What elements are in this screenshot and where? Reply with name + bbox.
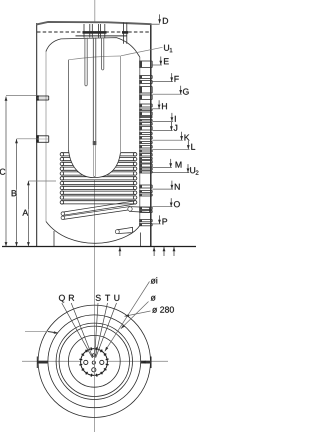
nozzle label I xyxy=(152,120,173,122)
nozzle label K xyxy=(152,139,183,141)
inner vessel left wall xyxy=(68,60,70,150)
flange bolt hole right xyxy=(100,360,104,364)
nozzle label U2 xyxy=(152,172,189,174)
dimension line A xyxy=(27,181,29,246)
plan concentric tank circles xyxy=(38,305,150,417)
sensor well pipe 2 long xyxy=(92,38,94,145)
label B xyxy=(11,189,17,197)
inner tank dished bottom xyxy=(46,222,140,244)
flange top hole xyxy=(93,354,96,357)
label A xyxy=(23,209,29,216)
sensor well pipe 1 xyxy=(84,38,86,86)
nozzle label O xyxy=(152,206,172,208)
left wall nozzle stub lower (B level) xyxy=(37,135,49,137)
nozzle label H xyxy=(152,108,160,110)
center flange xyxy=(81,349,108,376)
outer tank right wall xyxy=(150,24,152,246)
top nozzle neck 3 xyxy=(100,24,102,38)
callout ø 280 xyxy=(124,311,150,316)
inner vessel dished bottom xyxy=(69,150,121,178)
inner vessel right wall xyxy=(119,56,121,153)
nozzle label N xyxy=(152,188,173,190)
nozzle label J xyxy=(152,130,172,132)
plan left tab xyxy=(36,357,38,369)
nozzle label U1 xyxy=(121,47,163,56)
left tab leader line xyxy=(25,330,48,332)
outer tank top edge xyxy=(37,22,152,25)
flange center hole xyxy=(92,361,95,364)
nozzle label L xyxy=(152,148,189,150)
right wall nozzle stubs xyxy=(139,61,152,68)
nozzle label F xyxy=(152,81,173,83)
plan labels Q R S T U xyxy=(59,295,65,303)
outer tank left wall xyxy=(36,23,38,246)
inner tank top dome xyxy=(46,38,140,57)
drain tube xyxy=(117,227,133,233)
inner vessel body mask xyxy=(69,56,121,178)
nozzle label P xyxy=(152,223,160,225)
ground line xyxy=(2,246,196,248)
plan right tab xyxy=(150,357,152,369)
inner vessel top edge xyxy=(69,56,121,60)
nozzle label D xyxy=(152,23,160,25)
sensor well pipe 3 short xyxy=(101,38,103,70)
insulation dashed joint line xyxy=(37,31,152,33)
nozzle label G xyxy=(152,93,182,95)
support skirt left edge xyxy=(53,231,55,247)
manhole cover plate xyxy=(76,35,127,37)
label C xyxy=(0,167,6,175)
dimension line B xyxy=(16,139,18,246)
top nozzle neck 2 xyxy=(91,24,93,38)
support skirt right edge xyxy=(140,233,142,247)
plan radial connection lines (outer part) xyxy=(62,303,93,358)
callout ø xyxy=(121,302,149,329)
coil lower diagonal turn 2 (outlet run) xyxy=(64,207,131,217)
height reference up arrows xyxy=(119,247,121,256)
dimension line C xyxy=(5,97,7,247)
center axis above tank xyxy=(94,0,96,23)
nozzle label E xyxy=(152,64,162,66)
plan radial connection lines (inner part) xyxy=(87,348,92,357)
top nozzle neck 1 xyxy=(83,24,85,38)
coil outlet pipe to P nozzle xyxy=(130,207,150,213)
inner tank right wall xyxy=(139,57,141,226)
plan horizontal centerline xyxy=(22,360,168,362)
coil lower diagonal turn 1 xyxy=(64,201,135,212)
left wall nozzle stub upper (C level) xyxy=(37,95,49,97)
center axis lower through plan view xyxy=(93,180,95,432)
coil heat exchanger turns xyxy=(63,152,135,154)
flange bolt hole left xyxy=(84,360,88,364)
nozzle label M xyxy=(152,166,172,168)
inner tank left wall xyxy=(45,51,47,222)
top nozzle neck 4 xyxy=(123,23,125,44)
callout øi xyxy=(105,282,150,352)
flange bolt hole bottom xyxy=(92,368,96,372)
flange vertical centerline xyxy=(93,348,95,375)
